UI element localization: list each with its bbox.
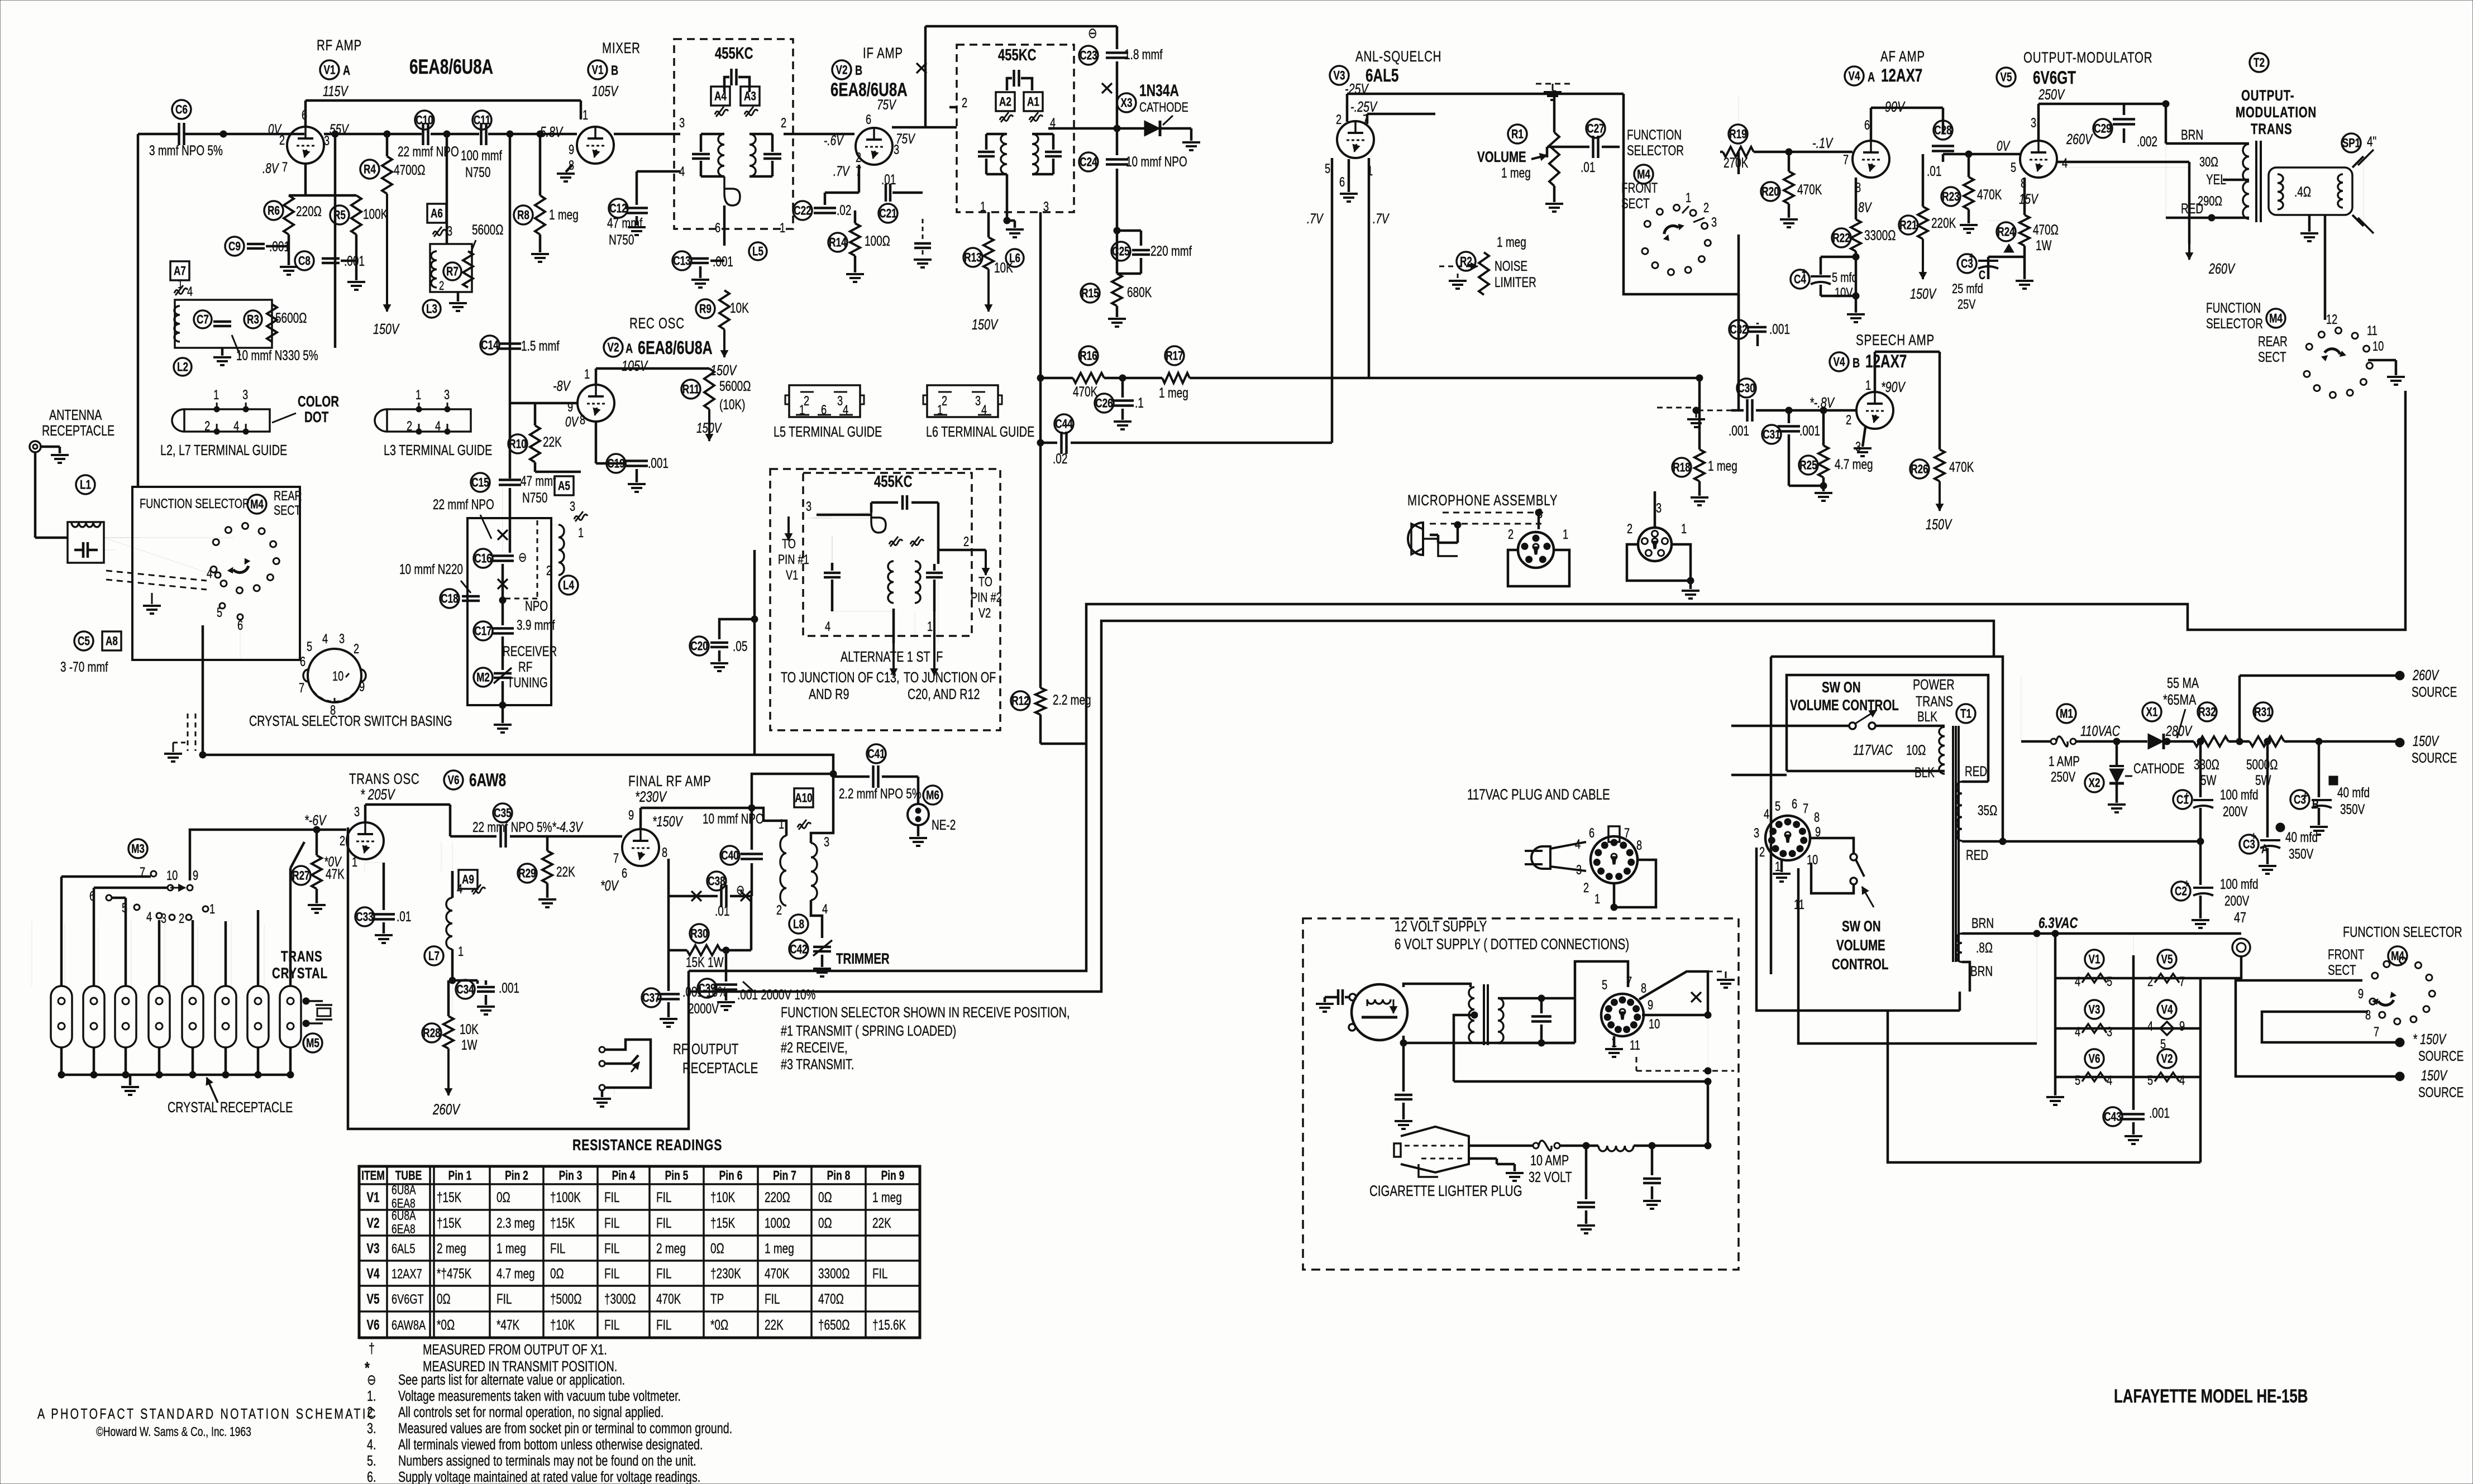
svg-text:9: 9: [628, 808, 634, 823]
svg-text:NPO: NPO: [525, 598, 548, 614]
svg-text:5: 5: [1602, 978, 1607, 993]
svg-text:SOURCE: SOURCE: [2418, 1084, 2464, 1100]
svg-text:C7: C7: [197, 313, 209, 327]
svg-text:.001: .001: [499, 980, 519, 995]
svg-text:TO: TO: [978, 575, 992, 590]
svg-text:3.9 mmf: 3.9 mmf: [517, 617, 555, 633]
wire R4 to 150V: [386, 194, 388, 312]
svg-text:SOURCE: SOURCE: [2412, 750, 2457, 765]
svg-text:X3: X3: [1121, 97, 1133, 111]
svg-text:RECEPTACLE: RECEPTACLE: [42, 422, 114, 438]
svg-text:A8: A8: [106, 635, 118, 649]
ground under R6: [288, 246, 290, 265]
svg-text:B: B: [855, 63, 862, 78]
svg-text:4: 4: [322, 631, 328, 647]
svg-text:22K: 22K: [556, 864, 575, 879]
ground under C8: [355, 261, 358, 280]
svg-text:V5: V5: [366, 1291, 379, 1306]
transformer T2 primary coil: [2243, 144, 2249, 219]
svg-text:4: 4: [825, 619, 830, 634]
svg-text:R28: R28: [423, 1027, 440, 1041]
svg-text:1: 1: [458, 944, 464, 959]
svg-text:©Howard W. Sams & Co., Inc. 19: ©Howard W. Sams & Co., Inc. 1963: [96, 1425, 251, 1439]
svg-text:Numbers assigned to terminals: Numbers assigned to terminals may not be…: [398, 1452, 696, 1468]
svg-text:M4: M4: [2269, 312, 2283, 326]
wire can1 pin2 to V2B grid: [784, 133, 854, 136]
svg-text:AND R9: AND R9: [809, 686, 849, 702]
wire V6 plate 205V: [364, 805, 367, 822]
alternate IF squiggles: [889, 539, 903, 545]
capacitor C1 100mfd 200V: [2173, 790, 2192, 809]
svg-text:10Ω: 10Ω: [1906, 742, 1926, 758]
svg-text:TO: TO: [782, 537, 796, 552]
wire IF out vertical x1863: [1039, 212, 1042, 688]
wire can1 pin4 to C12: [637, 170, 680, 173]
svg-text:330Ω: 330Ω: [2194, 757, 2219, 772]
coils L8: [794, 788, 813, 807]
svg-text:22K: 22K: [765, 1317, 784, 1333]
svg-text:X2: X2: [2089, 777, 2100, 791]
mic plug socket 1: [1518, 532, 1554, 568]
svg-text:Pin 1: Pin 1: [448, 1169, 472, 1183]
svg-text:See parts list for alternate v: See parts list for alternate value or ap…: [398, 1371, 625, 1387]
svg-text:.001: .001: [1769, 321, 1790, 337]
svg-text:L6 TERMINAL GUIDE: L6 TERMINAL GUIDE: [926, 423, 1034, 439]
alternate IF hairpin: [871, 513, 886, 533]
wire V5 screen 260V: [2057, 167, 2189, 168]
svg-text:6AW8A: 6AW8A: [392, 1318, 426, 1333]
svg-text:4: 4: [2107, 1073, 2112, 1088]
svg-text:1 meg: 1 meg: [496, 1241, 526, 1256]
svg-text:R7: R7: [446, 265, 459, 279]
svg-text:.01: .01: [1581, 159, 1595, 175]
resistor R21 220K: [1899, 216, 1918, 234]
IF can1 primary coil: [718, 134, 724, 176]
svg-text:TP: TP: [710, 1291, 724, 1306]
IF can2 top capacitor: [1007, 78, 1012, 90]
svg-text:5: 5: [307, 639, 312, 654]
svg-text:C17: C17: [474, 625, 491, 639]
wire mixer plate to 1st IF can: [614, 133, 680, 136]
resistor R20 470K: [1761, 182, 1780, 201]
svg-text:A: A: [1868, 70, 1875, 85]
svg-text:6AW8: 6AW8: [469, 770, 506, 791]
svg-text:6EA8/6U8A: 6EA8/6U8A: [638, 338, 713, 358]
capacitor C20 .05: [690, 636, 709, 655]
svg-text:32 VOLT: 32 VOLT: [1529, 1169, 1572, 1185]
resistor R9 10K: [696, 299, 715, 318]
svg-text:1 meg: 1 meg: [1708, 458, 1737, 473]
svg-text:C43: C43: [2104, 1110, 2121, 1124]
tube V1A: [287, 127, 324, 164]
svg-text:4: 4: [207, 566, 212, 581]
ground under tuning block: [502, 705, 504, 723]
svg-text:* 150V: * 150V: [2413, 1031, 2447, 1047]
resistor R31 5000ohm 5W: [2254, 702, 2273, 721]
svg-text:4: 4: [435, 419, 441, 434]
svg-text:2: 2: [963, 534, 969, 549]
resistor R13 10K: [963, 248, 982, 267]
resistor R16 470K: [1079, 346, 1098, 365]
svg-text:ALTERNATE 1 ST IF: ALTERNATE 1 ST IF: [841, 648, 943, 664]
svg-text:3: 3: [806, 499, 811, 514]
svg-text:2: 2: [1508, 527, 1514, 542]
svg-text:C10: C10: [416, 114, 433, 128]
svg-text:10K: 10K: [460, 1021, 479, 1037]
svg-text:VOLUME: VOLUME: [1836, 937, 1885, 954]
svg-text:CRYSTAL: CRYSTAL: [272, 965, 328, 982]
capacitor C34 .001: [456, 980, 475, 999]
svg-text:FIL: FIL: [872, 1266, 887, 1281]
svg-text:3: 3: [1576, 863, 1582, 878]
svg-text:10V: 10V: [1835, 285, 1853, 300]
svg-text:470Ω: 470Ω: [818, 1291, 844, 1306]
capacitor C11 100mmf: [472, 111, 491, 130]
power routing wires: [1756, 848, 1960, 1011]
svg-text:1: 1: [352, 855, 357, 870]
svg-text:6: 6: [1589, 826, 1594, 841]
capacitor C33 .01: [355, 907, 374, 926]
tube label V1 A: [320, 60, 339, 79]
svg-text:0Ω: 0Ω: [496, 1189, 510, 1205]
resistor R14 100ohm: [828, 233, 847, 252]
svg-text:1W: 1W: [2036, 237, 2052, 253]
svg-text:1N34A: 1N34A: [1139, 81, 1179, 100]
svg-text:3: 3: [570, 499, 575, 514]
svg-text:1 AMP: 1 AMP: [2049, 753, 2080, 769]
receiver tuning block box: [467, 518, 551, 705]
svg-text:NOISE: NOISE: [1495, 258, 1527, 274]
svg-text:+: +: [2251, 830, 2256, 842]
svg-text:OUTPUT-MODULATOR: OUTPUT-MODULATOR: [2023, 49, 2152, 66]
alternate IF outer dashed box: [770, 469, 1000, 730]
wire V2B plate to IF can 2: [892, 126, 957, 129]
svg-text:FIL: FIL: [765, 1291, 780, 1306]
svg-text:.8V: .8V: [262, 160, 279, 176]
wire speaker to rear selector: [2324, 215, 2327, 320]
terminal guide L2 L7: [184, 409, 270, 432]
ground can2 pin1: [1006, 174, 1009, 221]
svg-text:†230K: †230K: [710, 1266, 741, 1281]
svg-text:12AX7: 12AX7: [392, 1266, 422, 1281]
svg-text:2 meg: 2 meg: [437, 1241, 466, 1256]
svg-text:*150V: *150V: [652, 813, 684, 829]
svg-text:7: 7: [2179, 974, 2185, 989]
diode X2: [2085, 773, 2104, 792]
svg-text:C22: C22: [794, 204, 811, 218]
wire 260V source: [2238, 676, 2241, 741]
svg-text:4: 4: [457, 882, 462, 897]
svg-text:RF AMP: RF AMP: [317, 37, 362, 54]
ground T2 secondary: [2308, 215, 2311, 232]
svg-text:150V: 150V: [696, 420, 722, 435]
svg-text:3: 3: [894, 142, 899, 157]
wire osc injection vertical: [509, 134, 512, 478]
svg-text:12: 12: [2326, 312, 2337, 327]
resistor R22 3300ohm: [1832, 228, 1851, 247]
svg-text:C38: C38: [708, 875, 725, 889]
wire BRN return to bus: [1962, 962, 1970, 992]
wire L1 into rotor: [104, 538, 211, 574]
svg-text:4: 4: [1575, 837, 1581, 852]
svg-text:1: 1: [178, 277, 183, 291]
svg-text:V1: V1: [2089, 953, 2100, 967]
svg-text:Pin 5: Pin 5: [665, 1169, 689, 1183]
svg-text:.01: .01: [715, 903, 729, 918]
svg-text:.001: .001: [1729, 423, 1749, 438]
svg-text:SOURCE: SOURCE: [2412, 684, 2457, 700]
wire 6.3VAC: [1962, 932, 2241, 935]
wire -25V bus: [1347, 93, 1624, 95]
svg-text:†15K: †15K: [710, 1215, 736, 1231]
heater return wires: [1888, 1012, 2200, 1162]
svg-text:C6: C6: [175, 103, 188, 117]
svg-text:FIL: FIL: [604, 1189, 619, 1205]
wire antenna to L1: [34, 452, 37, 538]
dashed link below selector: [195, 714, 197, 751]
svg-text:†500Ω: †500Ω: [550, 1291, 581, 1306]
heater V4 diamond: [2157, 1000, 2176, 1019]
svg-text:220K: 220K: [1931, 215, 1956, 231]
svg-text:55 MA: 55 MA: [2167, 674, 2199, 691]
resistor R10 22K: [508, 434, 527, 453]
resistor R29 22K: [518, 864, 537, 883]
svg-text:*230V: *230V: [635, 788, 667, 805]
svg-text:2000V: 2000V: [688, 1000, 719, 1016]
svg-text:15K 1W: 15K 1W: [686, 954, 724, 970]
power trans inner box / 117VAC loop: [1787, 675, 1988, 782]
capacitor C2 100mfd 200V: [2171, 882, 2190, 901]
svg-text:*90V: *90V: [1881, 379, 1906, 395]
svg-text:7: 7: [1843, 152, 1849, 167]
svg-text:POWER: POWER: [1913, 676, 1955, 692]
svg-text:R27: R27: [292, 869, 309, 883]
svg-text:0Ω: 0Ω: [818, 1189, 832, 1205]
svg-text:0V: 0V: [565, 414, 579, 429]
capacitor C5 3-70mmf: [82, 542, 85, 558]
svg-text:3300Ω: 3300Ω: [1864, 227, 1896, 243]
svg-text:100Ω: 100Ω: [865, 233, 890, 248]
svg-text:350V: 350V: [2340, 801, 2365, 817]
svg-text:L2: L2: [177, 361, 188, 375]
svg-text:Pin 4: Pin 4: [612, 1169, 636, 1183]
svg-text:C44: C44: [1055, 418, 1072, 432]
12V transformer: [1469, 987, 1474, 1043]
svg-text:V1: V1: [592, 64, 604, 78]
svg-text:*47K: *47K: [496, 1317, 519, 1333]
svg-text:YEL: YEL: [2206, 171, 2226, 187]
svg-text:12 VOLT SUPPLY: 12 VOLT SUPPLY: [1395, 918, 1487, 935]
svg-text:A1: A1: [1027, 95, 1039, 109]
svg-text:V2: V2: [978, 606, 991, 621]
svg-text:Pin 6: Pin 6: [719, 1169, 743, 1183]
svg-text:X1: X1: [2146, 706, 2158, 720]
rectifier X1: [2142, 702, 2161, 721]
svg-text:470K: 470K: [765, 1266, 790, 1281]
svg-text:4: 4: [822, 902, 828, 917]
svg-text:PIN #2: PIN #2: [971, 590, 1002, 605]
svg-text:.001: .001: [713, 253, 733, 269]
svg-text:22K: 22K: [872, 1215, 891, 1231]
svg-text:FRONT: FRONT: [2328, 946, 2365, 962]
svg-text:SECT: SECT: [274, 503, 301, 518]
wire -.25V stub: [1366, 114, 1369, 124]
svg-text:290Ω: 290Ω: [2198, 194, 2222, 209]
svg-text:6: 6: [1864, 118, 1870, 133]
capacitor C10 22mmf: [415, 111, 434, 130]
svg-text:9: 9: [193, 868, 198, 883]
svg-text:BRN: BRN: [1971, 915, 1994, 931]
svg-text:BLK: BLK: [1917, 709, 1937, 724]
svg-text:A4: A4: [714, 90, 727, 104]
svg-text:.002: .002: [2137, 133, 2157, 149]
svg-text:4: 4: [1764, 807, 1769, 822]
svg-text:2: 2: [1583, 880, 1589, 896]
svg-text:BRN: BRN: [1970, 963, 1993, 979]
trimmer C42: [789, 940, 808, 959]
svg-text:CATHODE: CATHODE: [2133, 760, 2184, 776]
svg-text:A6: A6: [431, 207, 443, 221]
ground 6AL5 cathode: [1348, 159, 1350, 192]
capacitor C3B 40mfd 350V: [2290, 790, 2309, 809]
svg-text:V5: V5: [2161, 953, 2173, 967]
svg-text:12AX7: 12AX7: [1865, 352, 1907, 372]
neon lamp M6 NE-2: [923, 786, 942, 805]
svg-text:C13: C13: [673, 255, 690, 269]
resistor R4 4700ohm: [360, 160, 379, 179]
resistor R23 470K: [1941, 187, 1960, 206]
svg-text:1: 1: [1563, 527, 1568, 542]
dashed shield ground left of C30: [1657, 407, 1692, 409]
svg-text:†300Ω: †300Ω: [604, 1291, 636, 1306]
svg-text:3 mmf NPO 5%: 3 mmf NPO 5%: [149, 142, 223, 158]
svg-text:1: 1: [780, 221, 785, 236]
capacitor C25 220mmf: [1111, 242, 1130, 261]
svg-text:2: 2: [781, 116, 786, 131]
function selector rear box: [132, 487, 300, 660]
RF output receptacle: [599, 1047, 605, 1052]
resistor R30 15K row: [690, 924, 709, 943]
wires vibrator to transformer: [1403, 984, 1471, 987]
svg-text:SPEECH AMP: SPEECH AMP: [1856, 332, 1935, 348]
svg-text:RF: RF: [518, 659, 532, 674]
svg-text:2: 2: [1846, 413, 1851, 428]
T2 leads BRN YEL RED: [2166, 142, 2249, 145]
svg-text:220Ω: 220Ω: [296, 203, 322, 219]
svg-text:3 -70 mmf: 3 -70 mmf: [60, 659, 108, 674]
diode X3 1N34A: [1117, 93, 1136, 112]
capacitor C35 22mmf: [493, 803, 512, 822]
svg-text:C34: C34: [456, 983, 474, 997]
svg-text:6U8A: 6U8A: [392, 1209, 416, 1223]
svg-text:8: 8: [1636, 838, 1642, 853]
volume control R1 1meg: [1508, 125, 1527, 143]
svg-text:*0Ω: *0Ω: [710, 1317, 728, 1333]
svg-text:9: 9: [2358, 987, 2364, 1002]
resistor R25 4.7meg: [1799, 456, 1818, 475]
svg-text:10: 10: [166, 868, 178, 883]
svg-text:.8Ω: .8Ω: [1976, 940, 1993, 955]
svg-text:V2: V2: [366, 1215, 379, 1231]
svg-text:Pin 9: Pin 9: [881, 1169, 905, 1183]
svg-text:C14: C14: [481, 339, 498, 353]
svg-text:11: 11: [2367, 323, 2377, 338]
wire can2 pin4 to diode: [1048, 127, 1053, 130]
IF can1 top capacitor: [724, 77, 729, 92]
svg-text:5: 5: [2107, 974, 2112, 989]
wire R21 R23 taps: [1968, 154, 1970, 177]
svg-text:1: 1: [1775, 859, 1780, 874]
svg-text:5.: 5.: [367, 1452, 376, 1468]
svg-text:R16: R16: [1080, 350, 1097, 363]
capacitor C44 .02: [1054, 414, 1073, 433]
svg-text:LAFAYETTE MODEL HE-15B: LAFAYETTE MODEL HE-15B: [2114, 1386, 2308, 1407]
wire 6AL5 pin1 vertical: [1368, 158, 1371, 378]
svg-text:.7V: .7V: [1373, 210, 1390, 226]
svg-text:CRYSTAL SELECTOR SWITCH BASING: CRYSTAL SELECTOR SWITCH BASING: [249, 712, 452, 729]
svg-text:C23: C23: [1080, 49, 1097, 63]
svg-text:†15K: †15K: [437, 1215, 462, 1231]
svg-text:L3 TERMINAL GUIDE: L3 TERMINAL GUIDE: [384, 442, 492, 458]
12V socket: [1601, 994, 1644, 1036]
resistor R28 10K 1W: [422, 1023, 441, 1042]
svg-text:L6: L6: [1009, 252, 1020, 266]
svg-text:6: 6: [622, 866, 627, 881]
mic dashed cable: [1430, 523, 1541, 525]
svg-text:2: 2: [354, 642, 359, 657]
ground heater string: [2046, 1096, 2064, 1098]
svg-text:⊖: ⊖: [518, 550, 527, 565]
svg-text:RESISTANCE READINGS: RESISTANCE READINGS: [572, 1136, 722, 1154]
svg-text:R6: R6: [268, 204, 280, 218]
wire osc plate 105V: [595, 368, 598, 385]
svg-text:TUNING: TUNING: [507, 674, 548, 690]
svg-text:7: 7: [282, 160, 288, 175]
svg-text:5W: 5W: [2200, 772, 2217, 788]
terminal guide L6: [927, 385, 998, 417]
svg-text:7: 7: [613, 851, 619, 866]
IF can2 caps: [978, 151, 995, 154]
resistor R26 470K: [1910, 459, 1929, 478]
heater V2: [2157, 1049, 2176, 1068]
svg-text:25V: 25V: [1958, 297, 1976, 312]
svg-text:4.7 meg: 4.7 meg: [496, 1266, 535, 1281]
svg-text:3: 3: [242, 387, 248, 403]
svg-text:260V: 260V: [432, 1101, 460, 1118]
svg-text:FUNCTION SELECTOR: FUNCTION SELECTOR: [2343, 923, 2462, 940]
resistor R11 5600: [681, 380, 700, 399]
svg-text:MODULATION: MODULATION: [2236, 104, 2317, 121]
svg-text:6EA8: 6EA8: [392, 1223, 416, 1237]
svg-text:22K: 22K: [543, 434, 562, 449]
svg-text:R20: R20: [1761, 185, 1779, 199]
wire transmit bus: [203, 755, 870, 777]
svg-text:100 mmf: 100 mmf: [461, 147, 503, 163]
svg-text:OUTPUT-: OUTPUT-: [2241, 87, 2294, 104]
svg-text:A3: A3: [744, 90, 756, 104]
svg-text:+: +: [2184, 877, 2189, 890]
IF can1 tuning caps: [692, 153, 710, 156]
svg-text:FINAL RF AMP: FINAL RF AMP: [628, 773, 712, 789]
svg-text:5: 5: [2075, 1073, 2080, 1088]
wire 250V plate: [2037, 104, 2040, 141]
power socket: [1765, 816, 1810, 860]
wire RED secondary to filter row: [1962, 840, 2200, 843]
svg-text:7: 7: [1803, 801, 1808, 816]
wire mic socket2 up: [1654, 513, 1656, 528]
svg-text:3: 3: [2031, 116, 2036, 131]
svg-text:6EA8/6U8A: 6EA8/6U8A: [830, 80, 908, 100]
